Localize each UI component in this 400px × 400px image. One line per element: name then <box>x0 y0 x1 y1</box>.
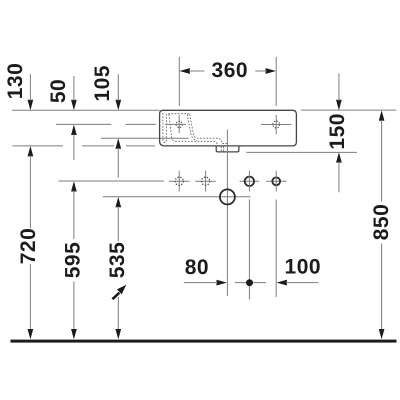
tap hole level line (50) seg2 <box>126 123 157 125</box>
bowl bottom dashed <box>169 114 218 146</box>
tap hole dotted circle <box>176 121 182 127</box>
dim 105 arrow up <box>115 138 121 148</box>
dim 360 arrow right <box>266 68 276 74</box>
dim 720 arrow up <box>28 146 34 156</box>
dim 100 arrow <box>277 280 287 286</box>
floor line <box>11 340 397 343</box>
tap hole cross horizontal <box>165 123 186 125</box>
washbasin outer outline <box>160 110 297 146</box>
dim 535 line lower <box>117 297 119 331</box>
hole2 cross horizontal <box>195 180 216 182</box>
dim 360 extension line left <box>178 57 180 106</box>
dim 360 extension line right <box>275 57 277 106</box>
svg-text:720: 720 <box>17 228 40 265</box>
dim 720 line lower <box>29 264 31 331</box>
centerline C upper (hole4 cross vertical) <box>275 171 277 192</box>
dim 150 arrow down <box>336 100 342 110</box>
svg-text:535: 535 <box>106 242 129 279</box>
dim 50 arrow up <box>71 125 77 135</box>
dim 595 line lower <box>73 282 75 331</box>
hole3 cross horizontal <box>240 180 259 182</box>
right fixing cross vertical <box>275 115 277 134</box>
dim 80 arrow <box>217 280 227 286</box>
adjustable height NE arrow <box>112 293 119 300</box>
reference dot <box>246 279 253 286</box>
tap hole level line (50) seg1 <box>56 123 111 125</box>
dim 360 arrow left <box>180 68 190 74</box>
right fixing dotted circle <box>273 121 280 128</box>
dim 850 arrow up <box>379 110 385 120</box>
svg-text:100: 100 <box>285 256 322 279</box>
bowl bottom level line (105) <box>101 137 189 139</box>
dim 850 arrow down at floor <box>379 329 385 339</box>
centerline B upper (hole3 cross vertical) <box>248 171 250 192</box>
dim 535 arrow down at floor <box>115 329 121 339</box>
hole2 dotted circle <box>202 177 210 185</box>
dim 50 arrow down <box>71 100 77 110</box>
dim mid segment <box>235 282 266 284</box>
drain box under basin <box>216 146 239 152</box>
svg-text:80: 80 <box>185 256 209 279</box>
dim 105 arrow down <box>115 100 121 110</box>
basin bottom level line (130) seg2 <box>82 145 114 147</box>
tap hole cross vertical <box>178 115 180 133</box>
bowl top edge dashed <box>168 113 189 115</box>
centerline B lower <box>248 200 250 300</box>
dim 595 arrow up <box>71 181 77 191</box>
bowl right wall inner edge dashed <box>187 114 197 140</box>
svg-text:50: 50 <box>47 79 70 103</box>
svg-text:130: 130 <box>4 63 27 100</box>
dim 720 arrow down at floor <box>28 329 34 339</box>
rim top level line right <box>301 109 396 111</box>
svg-text:850: 850 <box>370 204 393 241</box>
bowl right wall and ledge dashed <box>190 114 229 143</box>
drain centerline A <box>226 130 228 297</box>
fixing holes level line (595) <box>59 180 165 182</box>
svg-text:595: 595 <box>61 242 84 279</box>
dim 595 arrow down at floor <box>71 329 77 339</box>
hole2 cross vertical <box>205 171 207 192</box>
rim top level line left <box>12 109 160 111</box>
drain trap level line (535) <box>103 196 251 198</box>
hole3 bold circle <box>245 177 254 186</box>
dim 535 arrow up <box>115 197 121 207</box>
centerline C lower <box>275 200 277 298</box>
dim 130 arrow down <box>28 100 34 110</box>
svg-text:105: 105 <box>91 65 114 102</box>
hole1 cross horizontal <box>169 180 190 182</box>
big drain circle <box>220 189 235 204</box>
drain box bottom level line (150) <box>246 151 357 153</box>
hole4 cross horizontal <box>266 180 287 182</box>
svg-text:360: 360 <box>212 59 249 82</box>
right fixing cross horizontal <box>261 124 291 126</box>
basin bottom level line (130) seg1 <box>13 145 64 147</box>
bowl left wall dashed U <box>163 113 167 142</box>
dim 850 line lower <box>381 244 383 331</box>
dim 150 arrow up <box>336 152 342 162</box>
svg-text:150: 150 <box>326 113 349 150</box>
hole1 cross vertical <box>178 171 180 192</box>
basin bottom level line (130) seg3 <box>126 145 155 147</box>
hole1 dotted circle <box>175 177 183 185</box>
drain pipe dashes <box>220 146 222 151</box>
hole4 bold circle <box>272 177 280 185</box>
